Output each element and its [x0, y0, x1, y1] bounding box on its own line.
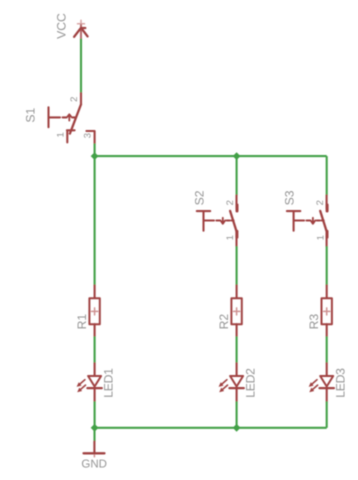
svg-text:S1: S1: [24, 107, 38, 122]
wire LED2 to bottom bus: [236, 401, 238, 427]
junction node C: [91, 424, 99, 432]
wire R3 to LED3: [326, 336, 328, 363]
wire R2 to LED2: [236, 336, 238, 363]
svg-text:S2: S2: [192, 190, 206, 205]
wire node A to R1: [94, 156, 96, 285]
svg-text:1: 1: [225, 235, 236, 240]
svg-text:2: 2: [69, 97, 80, 102]
LED LED1: [80, 363, 102, 401]
resistor R3: [322, 285, 332, 336]
svg-text:1: 1: [55, 132, 66, 137]
wire node B to S2: [236, 156, 238, 195]
svg-text:2: 2: [225, 200, 236, 205]
ground symbol origin cross: [91, 450, 98, 457]
R2 origin cross: [233, 308, 239, 315]
svg-text:LED1: LED1: [102, 368, 116, 398]
svg-text:R2: R2: [217, 314, 231, 330]
LED1 emission arrowheads: [77, 382, 83, 392]
switch S1: [49, 93, 95, 143]
wire S3 to R3: [326, 246, 328, 285]
top bus wire: [95, 155, 327, 157]
resistor R2: [231, 285, 241, 336]
svg-text:GND: GND: [81, 458, 107, 470]
svg-text:R1: R1: [75, 314, 89, 330]
R1 origin cross: [91, 308, 97, 315]
supply symbol VCC arrow: [80, 25, 82, 39]
wire LED3 to bottom bus: [326, 401, 328, 427]
junction node B: [233, 152, 241, 160]
wire node C to GND: [93, 428, 95, 442]
wire LED1 to bottom bus: [94, 401, 96, 427]
ground symbol GND: [84, 442, 105, 454]
LED2 emission arrowheads: [219, 382, 225, 392]
wire S2 to R2: [236, 246, 238, 285]
svg-text:S3: S3: [283, 190, 297, 205]
svg-text:2: 2: [315, 200, 326, 205]
LED LED3: [312, 363, 334, 401]
LED3 emission arrowheads: [309, 382, 315, 392]
svg-text:LED2: LED2: [244, 368, 258, 398]
svg-text:LED3: LED3: [334, 368, 348, 398]
wire top bus to S3: [326, 156, 328, 195]
wire R1 to LED1: [94, 336, 96, 363]
switch S3: [287, 195, 327, 246]
junction node D: [233, 424, 241, 432]
wire VCC to S1 pin 2: [80, 39, 82, 94]
svg-text:1: 1: [315, 235, 326, 240]
wire S1 pin3 to node A: [94, 144, 96, 157]
supply symbol VCC origin cross: [78, 20, 85, 27]
resistor R1: [89, 285, 99, 336]
svg-text:VCC: VCC: [54, 13, 68, 39]
R3 origin cross: [324, 308, 330, 315]
bottom bus wire: [95, 427, 327, 429]
LED LED2: [222, 363, 244, 401]
svg-text:3: 3: [83, 133, 94, 138]
switch S2: [197, 195, 237, 246]
svg-text:R3: R3: [307, 314, 321, 330]
junction node A: [91, 152, 99, 160]
